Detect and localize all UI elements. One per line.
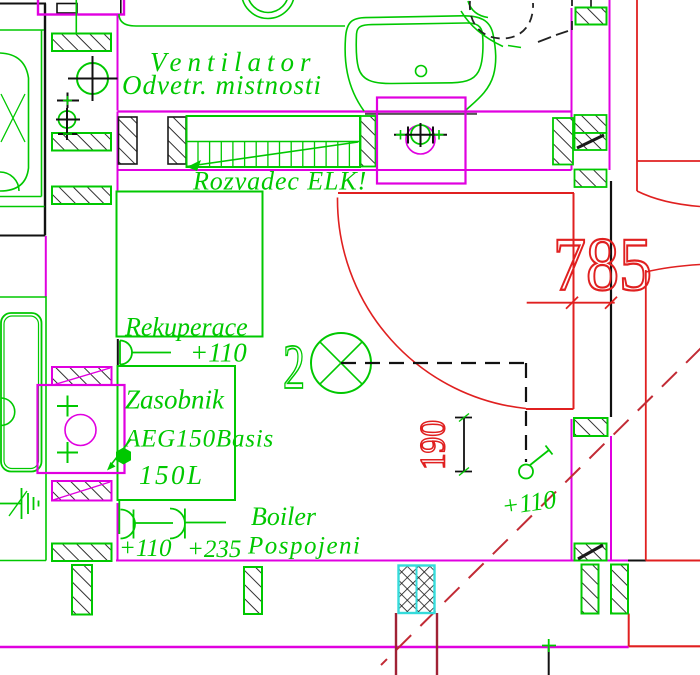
wall magenta vertical x571 bottom xyxy=(571,419,573,561)
hatch magenta washer top xyxy=(52,367,112,385)
FIXTURES GREEN xyxy=(0,0,521,561)
counter bottom edge xyxy=(0,196,42,198)
small circle crosshair xyxy=(59,111,76,128)
red dashed slope line xyxy=(381,348,700,665)
radiator diagonal xyxy=(187,142,359,167)
wall magenta vertical x571 top xyxy=(571,8,573,170)
washing machine inner xyxy=(4,316,39,469)
thick diagonal in block xyxy=(578,545,603,559)
hatch green column right of radiator xyxy=(361,116,376,167)
washer green plus top xyxy=(57,396,78,417)
hatch green left 3 xyxy=(52,187,111,205)
basin drain circle xyxy=(416,66,427,77)
arrowhead xyxy=(107,462,116,471)
wall magenta vertical x117 low xyxy=(117,503,119,561)
fan magenta box xyxy=(377,98,466,184)
hatch green right mid-bottom block xyxy=(575,544,607,561)
wall magenta vertical x46 xyxy=(45,236,47,297)
red corner bottom right vertical xyxy=(628,614,630,647)
ceiling light crosshair big xyxy=(77,63,108,94)
hatch green bottom right column 2 xyxy=(611,565,628,614)
hose curve xyxy=(461,11,503,47)
WALLS-RED xyxy=(337,0,700,675)
magenta diagonal in hatch 2 xyxy=(53,482,110,500)
black stub top-right xyxy=(590,0,592,7)
hatch black column 1 xyxy=(119,117,138,164)
counter edge top-left xyxy=(0,29,44,31)
wall magenta horizontal y170 xyxy=(118,169,572,171)
green node hexagon xyxy=(116,448,131,465)
wall left vertical xyxy=(44,4,46,236)
black wall stub x572 xyxy=(571,0,573,30)
ground symbol xyxy=(0,488,39,519)
red door arc right-top xyxy=(637,191,700,207)
toilet bowl arcs xyxy=(242,0,295,19)
washer magenta circle xyxy=(65,415,96,446)
green line y206 xyxy=(0,206,45,208)
green leader arrow xyxy=(110,439,131,466)
red vertical x645 xyxy=(645,270,647,561)
rekuperace box xyxy=(117,192,263,337)
rekuperace terminal symbol xyxy=(117,339,119,365)
red door swing arc xyxy=(337,198,526,409)
black dashed horseshoe xyxy=(470,1,533,39)
hatch green bottom column 1 xyxy=(72,565,92,615)
radiator midline xyxy=(187,141,361,143)
wall red horizontal y193 xyxy=(338,192,574,194)
rekuperace arc symbol xyxy=(120,341,171,365)
black dashes to wall xyxy=(538,31,568,42)
wall bottom black vertical xyxy=(548,646,550,675)
hatch green bottom column 2 xyxy=(244,567,262,614)
red dim tick 2 xyxy=(605,297,617,309)
svg-text:190: 190 xyxy=(413,420,453,470)
washer magenta box xyxy=(38,385,125,473)
red horizontal y560 right xyxy=(646,560,700,562)
wall top-left horizontal xyxy=(0,3,46,5)
red door header right xyxy=(637,160,700,162)
svg-text:Pospojeni: Pospojeni xyxy=(247,533,362,560)
crosshair lines xyxy=(68,56,118,101)
radiator box xyxy=(187,116,361,167)
fan green circle xyxy=(411,125,430,144)
hatch green bottom right column 1 xyxy=(582,565,599,614)
basin outer outline xyxy=(345,16,496,111)
svg-text:Boiler: Boiler xyxy=(251,502,317,531)
red dim tick 1 xyxy=(566,297,578,309)
wall red horizontal y409 xyxy=(526,408,574,410)
sink unit outline xyxy=(0,53,29,191)
dimension green ticks xyxy=(459,414,469,476)
wall bottom black piece xyxy=(628,560,646,562)
green drop line top xyxy=(75,0,77,34)
red dimension line 785 xyxy=(527,302,615,304)
wall red vertical right top xyxy=(636,0,638,191)
wall red vertical x573 xyxy=(573,193,575,409)
switch circle xyxy=(519,465,533,479)
svg-text:150L: 150L xyxy=(139,460,205,490)
hatch green right block C xyxy=(575,170,607,188)
wall magenta vertical x609 top xyxy=(609,0,611,170)
fan magenta circle xyxy=(406,125,435,154)
boiler arc symbol 2 xyxy=(170,509,226,539)
WC counter edge with corner xyxy=(119,14,345,26)
hatch magenta washer bottom xyxy=(52,481,112,501)
hatch green top-left 1 xyxy=(52,34,111,52)
svg-text:AEG150Basis: AEG150Basis xyxy=(123,426,274,453)
wall magenta horizontal y560 xyxy=(116,560,628,562)
dashed line to switch xyxy=(341,362,526,364)
wall corner bottom xyxy=(0,235,45,237)
counter edge dark xyxy=(365,113,477,115)
green tick on low cross xyxy=(63,133,72,135)
washer green plus bottom xyxy=(57,442,78,463)
small circle cross lines xyxy=(56,108,80,140)
svg-text:Odvetr. mistnosti: Odvetr. mistnosti xyxy=(122,70,322,100)
svg-text:785: 785 xyxy=(553,223,652,307)
hatch black column 2 xyxy=(168,117,186,164)
small cross green tick xyxy=(63,96,72,105)
hatch thick diagonal in block B xyxy=(577,135,604,148)
faucet arc xyxy=(468,1,488,18)
svg-text:+235: +235 xyxy=(187,536,241,563)
dimension 190 line xyxy=(455,418,472,472)
fan green plus marks xyxy=(396,130,444,140)
cyan divider xyxy=(416,566,418,614)
ground diagonal xyxy=(9,491,27,516)
magenta box top-left xyxy=(38,0,124,15)
sink X cross xyxy=(1,94,25,142)
zasobnik box xyxy=(118,366,236,500)
svg-text:+110: +110 xyxy=(190,338,247,368)
zasobnik box edge line low xyxy=(118,500,120,534)
radiator fins xyxy=(198,142,349,166)
basin inner outline xyxy=(356,23,483,84)
hose dash xyxy=(508,46,521,48)
hatch green right block B upper xyxy=(575,115,607,133)
svg-text:+110: +110 xyxy=(119,535,172,562)
lamp symbol xyxy=(311,333,371,393)
switch lever xyxy=(530,446,553,466)
sink bottom arc xyxy=(0,172,19,191)
washing machine outer xyxy=(1,313,42,472)
dashed vertical to switch xyxy=(525,363,527,462)
wall magenta horizontal y112 xyxy=(118,110,572,112)
bottom green tick xyxy=(542,639,556,652)
red horizontal y646 right xyxy=(629,645,700,647)
wall magenta horizontal y647 xyxy=(0,646,629,648)
svg-text:2: 2 xyxy=(283,331,305,402)
radiator arrow xyxy=(187,160,201,171)
small cross node xyxy=(57,93,79,109)
wall magenta vertical left of WC room xyxy=(117,15,119,111)
dark red vertical 2 xyxy=(436,613,438,675)
svg-text:Zasobnik: Zasobnik xyxy=(125,385,225,415)
wall magenta vertical x117 mid xyxy=(117,112,119,192)
hatch green right block B lower xyxy=(575,133,607,150)
black stub top xyxy=(120,0,122,14)
washer D arc xyxy=(1,398,15,426)
svg-text:Rozvadec ELK!: Rozvadec ELK! xyxy=(192,167,367,196)
green wall corner left low xyxy=(0,297,46,561)
hatch green boiler row xyxy=(52,544,112,562)
red arc x645 top xyxy=(646,265,700,273)
hatch green left 2 xyxy=(52,133,111,151)
hatch green top right xyxy=(576,8,607,25)
dark red vertical 1 xyxy=(395,613,397,675)
black box top xyxy=(57,4,77,14)
hatch green corridor right xyxy=(574,418,608,436)
wall magenta vertical x611 bottom xyxy=(610,436,612,561)
hatch cyan box xyxy=(399,566,435,614)
magenta diagonal in hatch xyxy=(53,368,110,385)
lamp X xyxy=(320,342,362,384)
hatch green right column A xyxy=(553,118,573,165)
fan crosshair xyxy=(394,123,447,147)
counter vertical edge xyxy=(41,30,43,197)
wall right vertical black xyxy=(610,181,612,417)
HATCHES xyxy=(52,8,628,615)
boiler arc symbol 1 xyxy=(121,510,174,539)
